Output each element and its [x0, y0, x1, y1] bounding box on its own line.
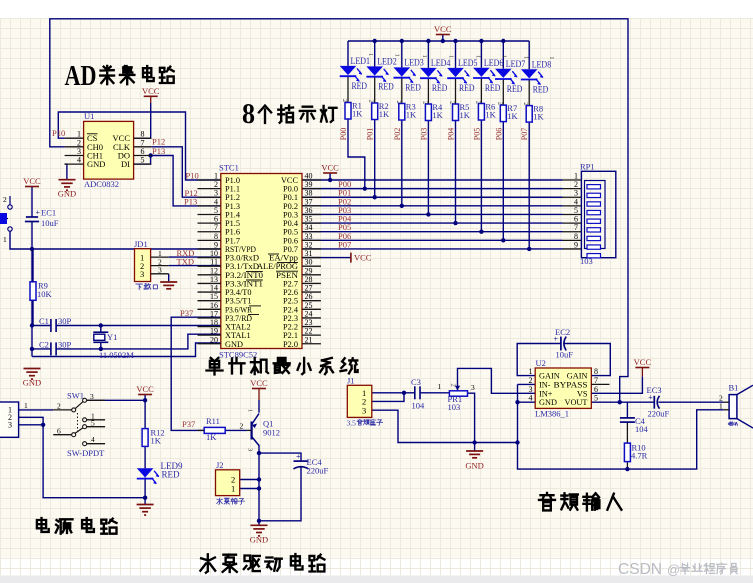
- svg-text:LED2: LED2: [377, 57, 397, 67]
- svg-text:3: 3: [140, 269, 144, 279]
- svg-text:RED: RED: [485, 83, 501, 93]
- svg-text:EC2: EC2: [555, 327, 570, 337]
- svg-text:2: 2: [395, 101, 402, 104]
- svg-text:2: 2: [522, 102, 529, 105]
- svg-text:RED: RED: [459, 83, 475, 93]
- svg-text:SW1: SW1: [67, 391, 84, 401]
- svg-text:GAIN: GAIN: [539, 372, 560, 381]
- svg-text:RED: RED: [352, 81, 368, 91]
- svg-text:P05: P05: [472, 128, 481, 140]
- svg-text:1: 1: [367, 53, 374, 56]
- svg-text:J2: J2: [216, 460, 224, 470]
- svg-text:BYPASS: BYPASS: [554, 380, 588, 389]
- svg-text:VS: VS: [577, 389, 588, 398]
- svg-text:IN+: IN+: [539, 389, 553, 398]
- svg-text:3.5: 3.5: [347, 419, 357, 428]
- svg-text:P00: P00: [339, 128, 348, 140]
- svg-text:2: 2: [341, 99, 348, 102]
- svg-text:1: 1: [231, 484, 235, 494]
- svg-text:11.0592M: 11.0592M: [99, 350, 134, 360]
- svg-text:RED: RED: [533, 84, 549, 94]
- svg-text:30P: 30P: [58, 316, 72, 326]
- svg-text:J1: J1: [347, 376, 355, 386]
- svg-text:B1: B1: [729, 383, 739, 393]
- svg-text:P07: P07: [338, 239, 351, 249]
- svg-text:P04: P04: [447, 128, 456, 140]
- svg-text:220uF: 220uF: [307, 466, 329, 476]
- svg-text:1: 1: [421, 55, 428, 58]
- svg-text:P07: P07: [520, 128, 529, 140]
- svg-text:EC3: EC3: [647, 385, 662, 395]
- svg-text:U2: U2: [536, 358, 546, 368]
- svg-text:P37: P37: [182, 419, 195, 429]
- svg-text:1K: 1K: [352, 109, 363, 119]
- svg-text:P02: P02: [393, 128, 402, 140]
- svg-text:P2.0: P2.0: [283, 340, 298, 349]
- svg-text:IN-: IN-: [539, 380, 551, 389]
- svg-text:2: 2: [449, 101, 456, 104]
- svg-text:3: 3: [362, 405, 366, 415]
- svg-text:104: 104: [412, 401, 426, 411]
- svg-text:RED: RED: [378, 82, 394, 92]
- svg-text:1K: 1K: [485, 110, 496, 120]
- svg-text:P03: P03: [419, 128, 428, 140]
- svg-text:LED5: LED5: [458, 58, 478, 68]
- svg-text:LED7: LED7: [506, 59, 526, 69]
- svg-text:VCC: VCC: [142, 86, 160, 96]
- svg-text:8: 8: [594, 367, 598, 376]
- svg-text:1: 1: [3, 235, 7, 244]
- svg-text:GND: GND: [465, 461, 483, 471]
- svg-text:1: 1: [529, 367, 533, 376]
- svg-text:VCC: VCC: [354, 253, 372, 263]
- svg-text:VOUT: VOUT: [564, 398, 587, 407]
- svg-text:EC1: EC1: [41, 208, 56, 218]
- svg-text:2: 2: [421, 101, 428, 104]
- svg-text:JD1: JD1: [134, 239, 148, 249]
- svg-text:LED1: LED1: [351, 56, 371, 66]
- svg-text:RED: RED: [405, 83, 421, 93]
- svg-text:P06: P06: [494, 128, 503, 140]
- svg-text:DI: DI: [121, 159, 130, 169]
- svg-text:VCC: VCC: [434, 24, 452, 34]
- svg-text:1: 1: [500, 55, 507, 58]
- svg-text:LED4: LED4: [431, 58, 451, 68]
- svg-text:STC89C52: STC89C52: [219, 350, 257, 360]
- svg-text:STC1: STC1: [219, 163, 239, 173]
- svg-text:SW-DPDT: SW-DPDT: [67, 448, 105, 458]
- svg-text:LM386_1: LM386_1: [535, 409, 569, 419]
- svg-text:4: 4: [529, 394, 533, 403]
- svg-text:VCC: VCC: [634, 357, 652, 367]
- svg-text:1: 1: [24, 401, 28, 410]
- svg-text:1K: 1K: [379, 109, 390, 119]
- svg-text:VCC: VCC: [23, 176, 41, 186]
- svg-text:GND: GND: [23, 378, 41, 388]
- svg-text:1K: 1K: [151, 436, 162, 446]
- svg-text:GAIN: GAIN: [567, 372, 588, 381]
- svg-text:7: 7: [594, 376, 598, 385]
- svg-text:CSDN: CSDN: [618, 561, 662, 578]
- svg-text:1K: 1K: [507, 111, 518, 121]
- svg-text:1: 1: [438, 382, 442, 391]
- svg-text:3: 3: [529, 385, 533, 394]
- svg-text:104: 104: [635, 424, 649, 434]
- svg-text:ADC0832: ADC0832: [84, 179, 119, 189]
- svg-text:220uF: 220uF: [648, 409, 670, 419]
- svg-text:3: 3: [8, 421, 12, 430]
- svg-text:RP1: RP1: [580, 161, 595, 171]
- svg-text:21: 21: [305, 335, 313, 344]
- svg-text:103: 103: [448, 402, 461, 412]
- svg-text:@: @: [667, 562, 680, 577]
- svg-text:RED: RED: [507, 84, 523, 94]
- svg-text:2: 2: [57, 402, 61, 411]
- svg-text:20: 20: [210, 335, 218, 344]
- svg-text:P01: P01: [366, 128, 375, 140]
- svg-text:GND: GND: [87, 159, 105, 169]
- svg-text:R11: R11: [206, 416, 220, 426]
- svg-text:LED3: LED3: [404, 58, 424, 68]
- svg-text:5: 5: [141, 156, 145, 165]
- svg-text:2: 2: [240, 421, 244, 430]
- svg-text:GND: GND: [539, 398, 557, 407]
- svg-text:P13: P13: [152, 146, 165, 156]
- svg-text:RED: RED: [162, 470, 181, 480]
- svg-text:C1: C1: [39, 316, 49, 326]
- svg-text:1: 1: [447, 55, 454, 58]
- svg-text:8: 8: [242, 99, 255, 130]
- svg-text:3: 3: [90, 392, 94, 401]
- svg-text:1K: 1K: [406, 110, 417, 120]
- svg-text:1: 1: [548, 56, 555, 59]
- svg-text:GND: GND: [58, 189, 76, 199]
- svg-text:6: 6: [594, 385, 598, 394]
- svg-text:VCC: VCC: [136, 384, 154, 394]
- svg-text:103: 103: [580, 256, 593, 266]
- svg-text:2: 2: [3, 195, 7, 204]
- svg-text:7: 7: [141, 138, 145, 147]
- svg-text:2: 2: [474, 101, 481, 104]
- svg-text:GND: GND: [225, 340, 243, 349]
- svg-text:5: 5: [594, 394, 598, 403]
- svg-text:4: 4: [77, 156, 81, 165]
- svg-text:2: 2: [368, 100, 375, 103]
- svg-text:2: 2: [496, 102, 503, 105]
- svg-text:P37: P37: [180, 308, 193, 318]
- svg-text:1: 1: [475, 55, 482, 58]
- svg-text:4: 4: [91, 435, 95, 444]
- svg-text:+: +: [296, 452, 301, 461]
- svg-text:RED: RED: [432, 83, 448, 93]
- svg-text:1: 1: [522, 56, 529, 59]
- svg-text:10K: 10K: [37, 289, 53, 299]
- svg-text:C2: C2: [39, 340, 49, 350]
- svg-text:30P: 30P: [58, 340, 72, 350]
- svg-text:1K: 1K: [460, 110, 471, 120]
- svg-text:VCC: VCC: [321, 163, 339, 173]
- svg-text:3: 3: [247, 448, 254, 451]
- svg-text:LED6: LED6: [484, 58, 504, 68]
- svg-text:10uF: 10uF: [556, 350, 574, 360]
- svg-text:2: 2: [529, 376, 533, 385]
- svg-text:1: 1: [719, 402, 723, 411]
- svg-text:P10: P10: [186, 171, 199, 181]
- svg-text:P10: P10: [52, 128, 65, 138]
- svg-text:1K: 1K: [432, 110, 443, 120]
- svg-text:U1: U1: [84, 111, 94, 121]
- svg-text:AD: AD: [65, 60, 97, 92]
- svg-text:C3: C3: [411, 377, 421, 387]
- svg-text:1: 1: [394, 54, 401, 57]
- svg-text:Y1: Y1: [107, 332, 117, 342]
- svg-text:2: 2: [450, 384, 457, 387]
- svg-text:GND: GND: [250, 534, 268, 544]
- svg-text:VCC: VCC: [250, 378, 268, 388]
- svg-text:P13: P13: [184, 197, 197, 207]
- svg-text:1K: 1K: [206, 432, 217, 442]
- svg-text:3: 3: [471, 383, 475, 392]
- svg-text:9: 9: [574, 240, 578, 249]
- svg-text:LED8: LED8: [532, 59, 552, 69]
- svg-text:1: 1: [247, 409, 254, 412]
- svg-text:2: 2: [77, 138, 81, 147]
- svg-text:4.7R: 4.7R: [631, 450, 648, 460]
- svg-text:10uF: 10uF: [41, 218, 59, 228]
- svg-text:3: 3: [158, 266, 162, 275]
- svg-text:TXD: TXD: [177, 256, 194, 266]
- svg-text:9012: 9012: [263, 428, 280, 438]
- svg-text:1K: 1K: [533, 112, 544, 122]
- svg-text:+: +: [36, 208, 41, 217]
